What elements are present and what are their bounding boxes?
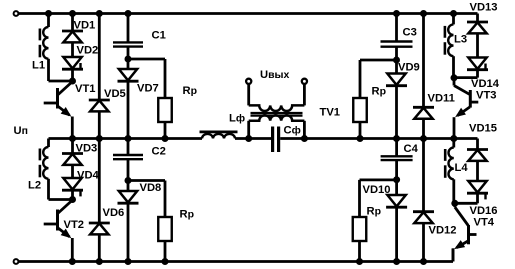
svg-text:VD4: VD4 bbox=[77, 170, 100, 182]
svg-text:VD3: VD3 bbox=[76, 143, 98, 155]
svg-text:TV1: TV1 bbox=[320, 107, 341, 119]
svg-text:C3: C3 bbox=[403, 27, 417, 39]
svg-text:VT3: VT3 bbox=[476, 90, 497, 102]
svg-text:L1: L1 bbox=[32, 60, 45, 72]
svg-text:Lф: Lф bbox=[229, 113, 245, 125]
svg-text:L4: L4 bbox=[455, 162, 469, 174]
svg-text:VT4: VT4 bbox=[474, 217, 495, 229]
svg-text:VD2: VD2 bbox=[77, 45, 99, 57]
svg-text:Rp: Rp bbox=[372, 86, 387, 98]
svg-text:C4: C4 bbox=[404, 143, 419, 155]
svg-text:Uвых: Uвых bbox=[260, 69, 290, 81]
svg-text:VD13: VD13 bbox=[470, 2, 498, 14]
svg-text:VD15: VD15 bbox=[469, 123, 497, 135]
svg-text:Rp: Rp bbox=[180, 209, 195, 221]
svg-text:VT1: VT1 bbox=[75, 83, 96, 95]
svg-text:VD6: VD6 bbox=[103, 207, 125, 219]
svg-text:VD10: VD10 bbox=[363, 184, 391, 196]
svg-text:VD7: VD7 bbox=[137, 83, 159, 95]
svg-text:Сф: Сф bbox=[284, 125, 301, 137]
svg-text:L2: L2 bbox=[28, 180, 41, 192]
svg-text:Rp: Rp bbox=[367, 206, 382, 218]
svg-text:Rp: Rp bbox=[183, 85, 198, 97]
svg-text:VD14: VD14 bbox=[471, 78, 500, 90]
svg-text:VD9: VD9 bbox=[398, 62, 420, 74]
svg-text:VD12: VD12 bbox=[429, 225, 457, 237]
svg-text:C1: C1 bbox=[152, 30, 166, 42]
svg-text:VD8: VD8 bbox=[140, 182, 162, 194]
svg-text:VD16: VD16 bbox=[470, 205, 498, 217]
svg-text:VD1: VD1 bbox=[74, 20, 96, 32]
svg-text:L3: L3 bbox=[454, 34, 467, 46]
svg-text:VT2: VT2 bbox=[64, 219, 85, 231]
svg-text:C2: C2 bbox=[152, 146, 166, 158]
svg-text:Uп: Uп bbox=[14, 125, 28, 137]
svg-text:VD5: VD5 bbox=[104, 88, 126, 100]
svg-text:VD11: VD11 bbox=[428, 93, 455, 105]
